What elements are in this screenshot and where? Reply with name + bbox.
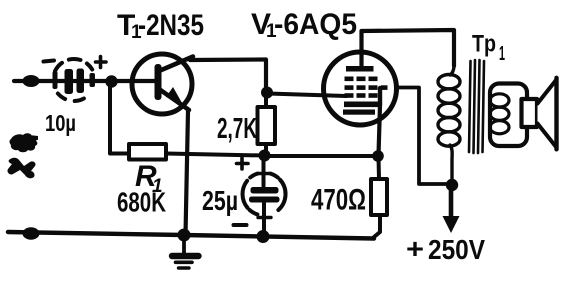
transistor T1 [132,54,193,114]
svg-text:1: 1 [499,43,505,65]
wire: R1 to node under 27K [166,154,264,156]
svg-text:Tp: Tp [472,31,496,58]
wire: input lead [14,79,112,83]
wire: grid lead to V1 [268,94,346,97]
speaker driver box [522,99,538,127]
svg-text:-6AQ5: -6AQ5 [274,8,357,41]
svg-text:470Ω: 470Ω [311,184,366,217]
wire: to R1 box [110,152,130,156]
wire: cathode node to 470 [377,157,382,179]
minus polarity of 25µ [234,223,247,227]
tube V1 6AQ5 [324,31,397,155]
transformer core [469,60,484,153]
ink smudge bottom [7,158,35,179]
wire: junction down to R1 [108,82,112,152]
wire: 27K to cathode rail node [264,144,268,152]
plus polarity of 10µ [96,57,107,68]
svg-text:25µ: 25µ [202,185,238,216]
plus polarity of 25µ [237,158,249,169]
input terminal dot [23,75,40,87]
wire: node to cathode node [265,154,378,158]
node: cathode junction [372,150,384,162]
dashed circle around 10µ [55,59,92,101]
transformer Tp1 primary winding [438,66,460,182]
minus polarity of 10µ [44,61,55,62]
speaker frame [490,84,527,147]
transformer secondary winding [490,94,509,134]
node: emitter/ground junction [178,229,191,242]
bottom rail [8,232,374,239]
resistor 27K box [258,107,276,144]
svg-text:+: + [406,233,424,264]
node: 27K / 25µ junction [259,150,271,162]
ground stem [182,238,186,253]
resistor 470Ω box [371,179,387,215]
speaker horn [538,80,557,148]
node: +250V junction [446,179,458,191]
wire: emitter down to rail [186,111,189,235]
svg-text:250V: 250V [428,234,485,265]
node: junction after C-in [105,75,117,87]
capacitor C-in 10µ [53,69,96,95]
wire: 470 to rail [374,215,380,237]
wire: base lead to T1 [112,79,157,83]
wire: node down to 27K [264,94,268,108]
node: 25µ to bottom rail [257,230,270,243]
svg-text:10µ: 10µ [45,110,76,136]
wire: collector to grid node [190,60,266,90]
wire: plate to transformer primary [362,30,455,66]
svg-text:2,7K: 2,7K [217,113,257,145]
node: grid junction [261,87,273,99]
ink smudge top [10,133,39,152]
arrow +250V [449,189,454,216]
capacitor 25µ [249,157,280,233]
ground symbol [172,253,199,259]
rail terminal dot [23,227,40,239]
wire: screen grid to +250V node [396,88,449,185]
dashed circle around 25µ [243,174,286,215]
svg-text:-2N35: -2N35 [138,9,204,42]
resistor R1 box [129,144,166,160]
svg-text:680K: 680K [117,187,166,218]
